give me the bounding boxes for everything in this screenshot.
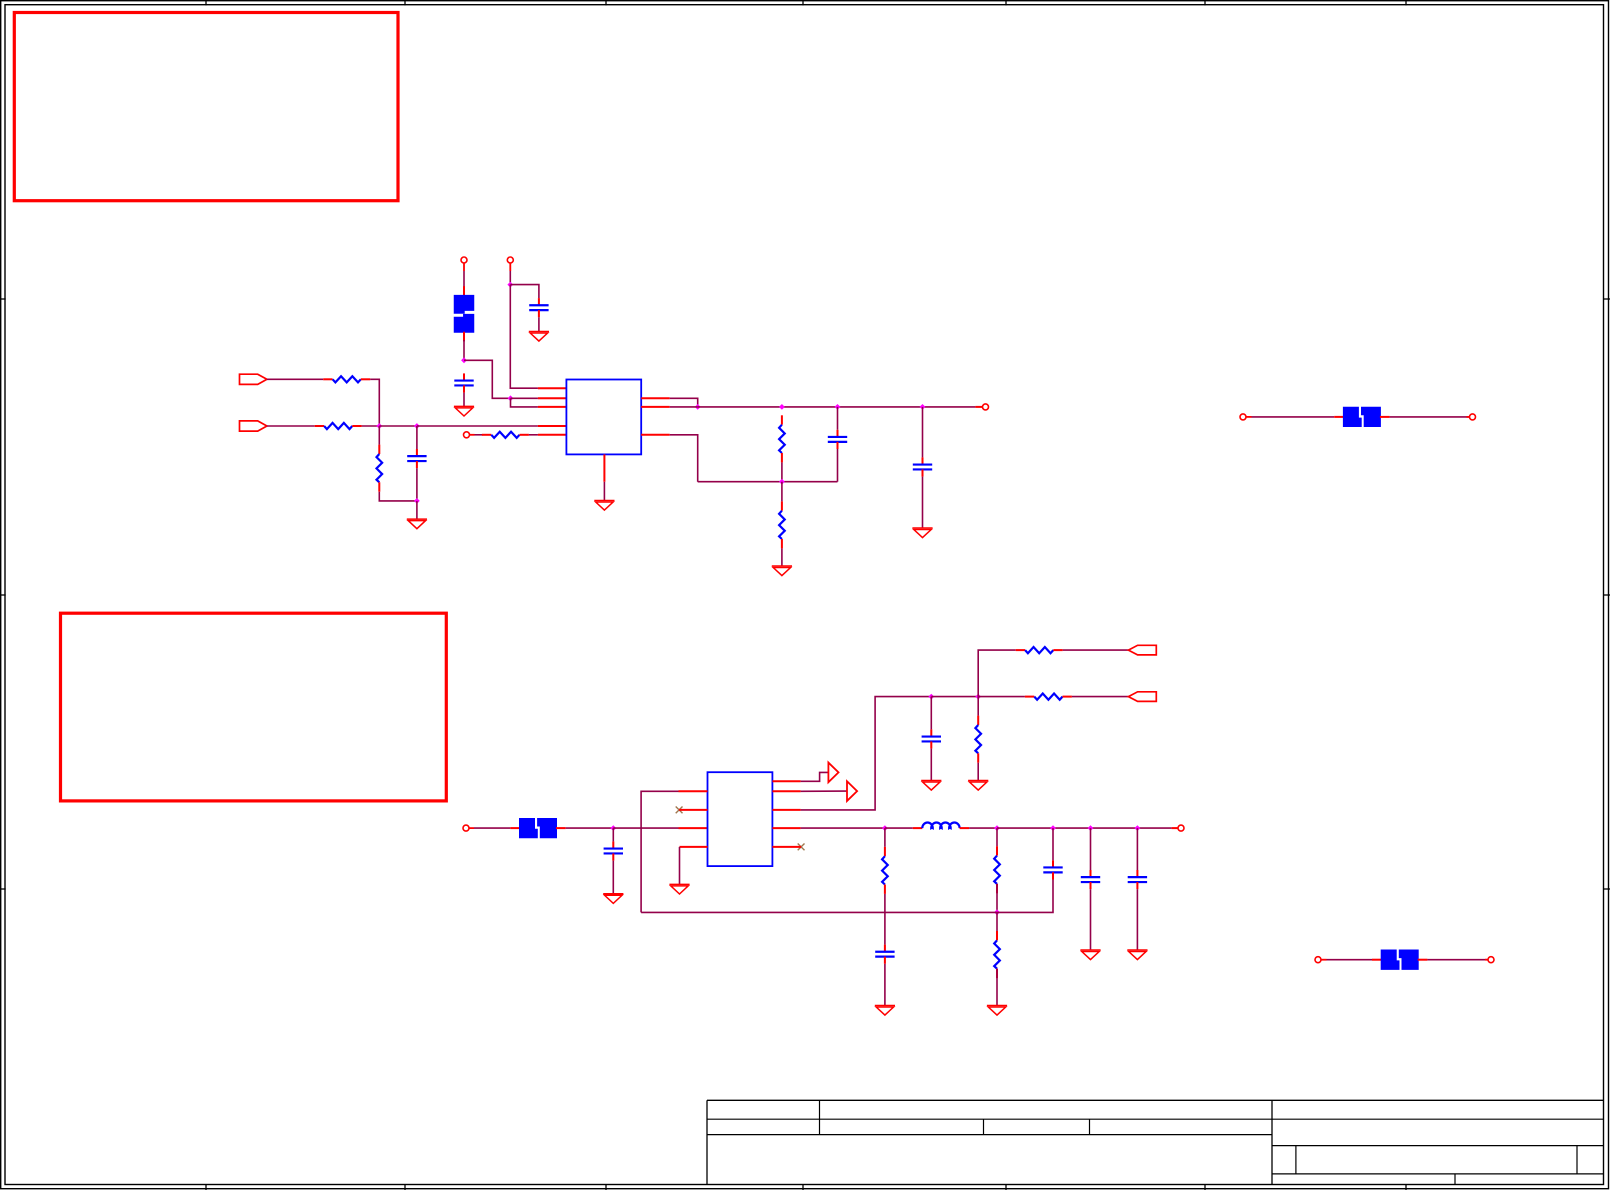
wire bottom rail xyxy=(698,481,838,483)
wire node24-R11 xyxy=(996,828,998,846)
U2 pin9 wire xyxy=(772,846,801,848)
wire node3-C2 xyxy=(510,285,539,299)
junction node25 xyxy=(1050,825,1056,831)
wire R9-gnd xyxy=(977,763,979,781)
red note box 2 xyxy=(61,613,447,801)
port P2 xyxy=(240,421,267,431)
ground C7 xyxy=(603,894,623,904)
feedback wire xyxy=(641,880,1053,913)
ground U2 pin4 xyxy=(669,884,689,894)
wire node20-C7 xyxy=(612,828,614,841)
offpage arrow A1 xyxy=(828,763,838,783)
wire R3-node6 xyxy=(379,492,417,501)
terminal T5 xyxy=(1315,957,1327,963)
wire L1-node24 xyxy=(969,827,997,829)
no-connect X1 xyxy=(676,807,683,814)
resistor R11 xyxy=(994,846,1000,893)
wire P1-R1 xyxy=(267,378,323,380)
terminal OUT1 xyxy=(983,404,989,410)
wire node2-U1 pin2 xyxy=(511,397,567,399)
inductor L1 xyxy=(913,822,969,828)
U1 pin6 wire xyxy=(641,398,698,407)
wire node23-L1 xyxy=(885,827,913,829)
resistor R3 xyxy=(377,445,383,492)
capacitor C9 xyxy=(1043,860,1062,879)
junction node8 xyxy=(779,404,785,410)
wire F1-node1 xyxy=(463,340,465,360)
capacitor C5 xyxy=(828,430,847,449)
red note box 1 xyxy=(14,13,398,201)
ground C6 xyxy=(912,528,932,538)
wire C2-gnd xyxy=(538,317,540,331)
resistor R9 xyxy=(975,716,981,763)
U2 pin1 feedback wire xyxy=(641,791,707,912)
ground R6 xyxy=(772,566,792,576)
op-amp regulator U1 xyxy=(566,380,641,455)
capacitor C2 xyxy=(529,298,548,317)
U2 pin6 wire xyxy=(772,790,847,792)
wire F3-node20 xyxy=(566,827,614,829)
wire C12-gnd xyxy=(884,964,886,1006)
wire node21-node22 xyxy=(931,696,978,698)
U2 pin8 wire xyxy=(772,827,885,829)
wire C8-gnd xyxy=(930,749,932,781)
U2 pin4 wire xyxy=(680,847,708,885)
wire node4-node5 xyxy=(379,425,417,427)
wire C10-gnd xyxy=(1090,889,1092,950)
junction node20 xyxy=(610,825,616,831)
ground C2 xyxy=(529,332,549,342)
wire C6-gnd xyxy=(922,477,924,528)
junction node2 xyxy=(508,395,514,401)
wire node10-C5 xyxy=(837,407,839,430)
wire node27-C11 xyxy=(1136,828,1138,870)
wire F2-T3 xyxy=(1390,416,1470,418)
wire node20-U2 pin3 xyxy=(613,827,707,829)
ground C11 xyxy=(1127,950,1147,960)
resistor R6 xyxy=(779,501,785,548)
junction node10 xyxy=(835,404,841,410)
junction node26 xyxy=(1088,825,1094,831)
U2 pin2 wire xyxy=(679,809,707,811)
wire R2-node4 xyxy=(362,425,380,427)
wire out rail 2 xyxy=(997,827,1178,829)
junction node6 xyxy=(414,498,420,504)
capacitor C1 xyxy=(454,373,473,392)
junction node21 xyxy=(928,694,934,700)
title block xyxy=(707,1100,1604,1184)
wire P2-R2 xyxy=(267,425,315,427)
wire node9-R6 xyxy=(781,482,783,502)
wire node11-C6 xyxy=(922,407,924,458)
ground C10 xyxy=(1080,950,1100,960)
no-connect X2 xyxy=(798,844,805,851)
junction node7 xyxy=(695,404,701,410)
terminal V2 xyxy=(507,257,513,271)
U2 pin7 wire xyxy=(772,697,931,810)
U1 bottom pin xyxy=(603,454,605,500)
wire T5-F4 xyxy=(1327,959,1373,961)
resistor R7 xyxy=(1016,647,1063,653)
wire node3-U1 pin1 xyxy=(510,285,566,389)
wire T2-F2 xyxy=(1252,416,1335,418)
wire node4-R3 xyxy=(378,426,380,445)
wire node22 up xyxy=(978,650,1016,697)
junction node22 xyxy=(975,694,981,700)
wire R6-gnd xyxy=(781,548,783,566)
wire R8-P4 xyxy=(1072,696,1129,698)
terminal T6 xyxy=(1485,957,1494,963)
wire R5-node9 xyxy=(781,462,783,481)
regulator U2 xyxy=(708,772,773,866)
fuse F1 xyxy=(454,286,475,341)
fuse F3 xyxy=(510,818,565,838)
junction node11 xyxy=(920,404,926,410)
junction node23 xyxy=(882,825,888,831)
wire node26-C10 xyxy=(1090,828,1092,870)
wire node21-C8 xyxy=(930,697,932,730)
wire R11-node28 xyxy=(996,884,998,912)
ground U1 xyxy=(594,501,614,511)
wire V1-F1 xyxy=(463,271,465,296)
port P1 xyxy=(240,374,267,384)
wire C7-gnd xyxy=(612,861,614,894)
terminal T3 xyxy=(1467,414,1476,420)
wire out rail xyxy=(698,406,983,408)
fuse F4 xyxy=(1372,950,1427,970)
wire R1-node4 xyxy=(370,379,379,426)
wire T4-F3 xyxy=(474,827,510,829)
junction node3 xyxy=(507,282,513,288)
resistor R12 xyxy=(994,931,1000,978)
capacitor C10 xyxy=(1081,870,1100,889)
junction node1 xyxy=(461,357,467,363)
wire node22-R9 xyxy=(977,697,979,716)
resistor R4 xyxy=(482,432,529,438)
capacitor C8 xyxy=(922,729,941,748)
junction node27 xyxy=(1135,825,1141,831)
wire T1-R4 xyxy=(475,434,483,436)
port P3 xyxy=(1128,645,1156,655)
wire node5-C3 xyxy=(416,426,418,449)
U1 pin7 wire xyxy=(641,406,698,408)
terminal T4 xyxy=(463,825,474,831)
wire node25-C9 xyxy=(1052,828,1054,860)
wire C5-bottom rail xyxy=(837,449,839,482)
capacitor C7 xyxy=(604,841,623,860)
ground node6 xyxy=(407,519,427,529)
resistor R1 xyxy=(323,376,370,382)
capacitor C12 xyxy=(875,945,894,964)
wire C1-gnd xyxy=(463,393,465,407)
junction node24 xyxy=(994,825,1000,831)
wire node22-R8 xyxy=(978,696,1025,698)
junction node5 xyxy=(414,423,420,429)
U2 pin5 wire xyxy=(772,772,828,781)
junction node4 xyxy=(376,423,382,429)
wire R12-gnd xyxy=(996,969,998,1006)
wire F4-T6 xyxy=(1427,959,1488,961)
port P4 xyxy=(1128,692,1156,702)
ground C1 xyxy=(454,406,474,416)
wire node28-R12 xyxy=(996,912,998,931)
ground C8 xyxy=(921,781,941,791)
ground R12 xyxy=(987,1006,1007,1016)
offpage arrow A2 xyxy=(847,781,857,801)
junction node28 xyxy=(994,909,1000,915)
junction node9 xyxy=(779,479,785,485)
terminal T2 xyxy=(1240,414,1252,420)
fuse F2 xyxy=(1334,407,1389,427)
terminal V1 xyxy=(461,257,467,271)
wire node1-U1 pin2 path xyxy=(464,360,511,398)
wire R10-C12 xyxy=(884,894,886,945)
resistor R5 xyxy=(779,415,785,462)
capacitor C6 xyxy=(913,457,932,476)
wire node6-gnd xyxy=(416,501,418,519)
wire R4-U1 pin5 xyxy=(529,434,567,436)
terminal OUT2 xyxy=(1178,825,1184,831)
ground C12 xyxy=(875,1006,895,1016)
wire V2-node3 xyxy=(509,271,511,285)
resistor R2 xyxy=(315,423,362,429)
resistor R8 xyxy=(1025,693,1072,699)
wire node23-R10 xyxy=(884,828,886,847)
capacitor C3 xyxy=(407,449,426,468)
wire C11-gnd xyxy=(1136,889,1138,950)
wire node5-U1 pin4 xyxy=(417,425,567,427)
ground R9 xyxy=(968,781,988,791)
capacitor C11 xyxy=(1128,870,1147,889)
wire C3-node6 xyxy=(416,468,418,501)
wire R7-P3 xyxy=(1063,649,1129,651)
U1 pin8 wire xyxy=(641,435,698,482)
resistor R10 xyxy=(882,847,888,894)
terminal T1 xyxy=(464,432,475,438)
wire node2-U1 pin3 xyxy=(511,398,567,407)
